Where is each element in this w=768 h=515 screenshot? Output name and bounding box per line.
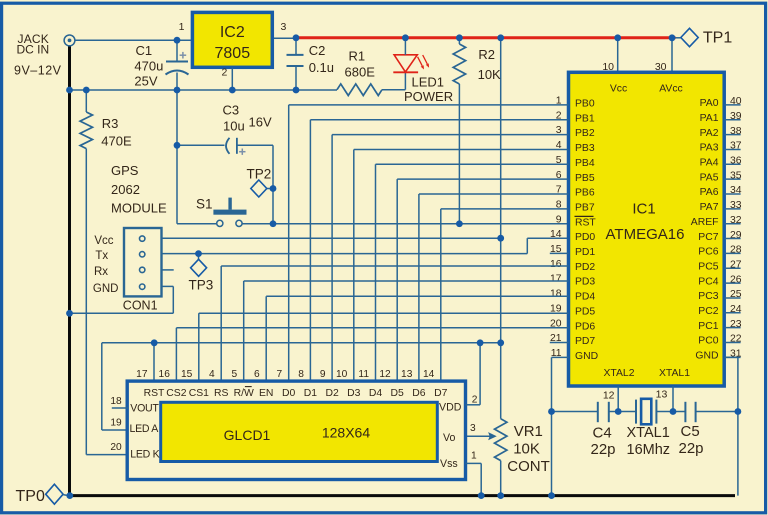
svg-text:13: 13 <box>401 369 413 380</box>
svg-text:R3: R3 <box>102 116 119 131</box>
svg-text:16: 16 <box>159 369 171 380</box>
svg-text:PD5: PD5 <box>575 306 595 317</box>
svg-text:17: 17 <box>136 369 148 380</box>
svg-text:16: 16 <box>550 259 562 270</box>
svg-text:PA0: PA0 <box>700 98 719 109</box>
svg-text:22p: 22p <box>679 440 704 457</box>
svg-text:14: 14 <box>550 229 562 240</box>
svg-text:RS: RS <box>214 388 229 399</box>
svg-text:PB5: PB5 <box>575 173 595 184</box>
svg-text:19: 19 <box>110 418 122 429</box>
svg-text:18: 18 <box>550 289 562 300</box>
svg-text:9: 9 <box>556 214 562 225</box>
svg-text:9: 9 <box>320 369 326 380</box>
svg-text:PC2: PC2 <box>698 306 718 317</box>
svg-text:PA2: PA2 <box>700 128 719 139</box>
svg-text:R2: R2 <box>478 47 495 62</box>
svg-text:Vcc: Vcc <box>94 235 113 247</box>
svg-text:D2: D2 <box>325 388 339 399</box>
svg-text:470u: 470u <box>134 59 163 74</box>
svg-text:16V: 16V <box>249 115 272 130</box>
svg-text:1: 1 <box>179 21 185 33</box>
svg-text:D4: D4 <box>369 388 383 399</box>
svg-text:GND: GND <box>695 351 718 362</box>
svg-text:PD4: PD4 <box>575 292 595 303</box>
svg-text:22p: 22p <box>591 441 616 458</box>
svg-text:10K: 10K <box>478 67 501 82</box>
svg-text:11: 11 <box>358 369 369 380</box>
svg-text:R/W: R/W <box>234 388 254 399</box>
svg-text:EN: EN <box>259 388 273 399</box>
svg-text:PC3: PC3 <box>698 291 718 302</box>
svg-text:2062: 2062 <box>111 182 140 197</box>
svg-text:CONT: CONT <box>507 458 550 475</box>
svg-text:TP2: TP2 <box>247 167 272 182</box>
svg-text:D7: D7 <box>434 388 448 399</box>
svg-text:20: 20 <box>110 442 122 453</box>
svg-text:Vcc: Vcc <box>610 83 627 94</box>
svg-text:LED1: LED1 <box>412 75 445 90</box>
svg-text:12: 12 <box>379 369 391 380</box>
svg-text:C5: C5 <box>681 423 700 440</box>
svg-text:PB1: PB1 <box>575 113 595 124</box>
svg-text:Rx: Rx <box>94 266 108 278</box>
svg-text:TP0: TP0 <box>16 488 45 505</box>
svg-text:PD2: PD2 <box>575 262 595 273</box>
svg-text:128X64: 128X64 <box>322 425 370 441</box>
svg-text:15: 15 <box>181 369 193 380</box>
svg-text:VR1: VR1 <box>514 423 543 440</box>
svg-text:PA1: PA1 <box>700 113 719 124</box>
svg-text:10K: 10K <box>513 441 540 458</box>
svg-text:GPS: GPS <box>111 163 139 178</box>
svg-text:14: 14 <box>423 369 435 380</box>
svg-text:D3: D3 <box>347 388 361 399</box>
svg-text:S1: S1 <box>196 196 213 211</box>
svg-text:470E: 470E <box>101 133 132 148</box>
svg-text:D1: D1 <box>304 388 318 399</box>
svg-text:CS2: CS2 <box>166 388 186 399</box>
svg-text:PD3: PD3 <box>575 277 595 288</box>
svg-text:0.1u: 0.1u <box>309 60 334 75</box>
svg-text:PC6: PC6 <box>698 247 718 258</box>
svg-text:1: 1 <box>471 451 477 462</box>
svg-text:D0: D0 <box>282 388 296 399</box>
svg-text:ATMEGA16: ATMEGA16 <box>606 226 685 243</box>
svg-text:TP3: TP3 <box>189 278 214 293</box>
svg-text:5: 5 <box>232 369 238 380</box>
svg-text:AREF: AREF <box>691 217 719 228</box>
svg-text:17: 17 <box>550 274 562 285</box>
svg-text:8: 8 <box>298 369 304 380</box>
svg-text:PC0: PC0 <box>698 336 718 347</box>
svg-text:IC1: IC1 <box>632 201 655 218</box>
svg-text:Tx: Tx <box>95 250 108 262</box>
svg-text:RST: RST <box>144 388 165 399</box>
svg-text:Vo: Vo <box>443 432 455 444</box>
svg-text:7: 7 <box>277 369 283 380</box>
svg-text:PD7: PD7 <box>575 336 595 347</box>
svg-text:PD0: PD0 <box>575 232 595 243</box>
svg-text:PA4: PA4 <box>700 158 719 169</box>
svg-text:PB2: PB2 <box>575 128 595 139</box>
svg-text:13: 13 <box>656 389 668 401</box>
svg-text:PA7: PA7 <box>700 202 719 213</box>
svg-text:DC IN: DC IN <box>17 43 50 57</box>
svg-text:D6: D6 <box>412 388 426 399</box>
svg-text:POWER: POWER <box>404 89 453 104</box>
svg-text:IC2: IC2 <box>220 24 245 41</box>
svg-text:LED A: LED A <box>130 423 160 435</box>
svg-text:LED K: LED K <box>130 449 159 461</box>
svg-text:18: 18 <box>110 396 122 407</box>
svg-text:2: 2 <box>221 67 227 79</box>
svg-text:PD1: PD1 <box>575 247 595 258</box>
svg-text:TP1: TP1 <box>703 29 732 46</box>
svg-text:D5: D5 <box>391 388 405 399</box>
svg-text:6: 6 <box>254 369 260 380</box>
svg-text:PA3: PA3 <box>700 143 719 154</box>
svg-text:VOUT: VOUT <box>130 403 159 415</box>
svg-text:VDD: VDD <box>439 402 462 414</box>
svg-text:PA5: PA5 <box>700 172 719 183</box>
svg-text:PC5: PC5 <box>698 261 718 272</box>
svg-text:RST: RST <box>575 217 596 228</box>
svg-text:PB3: PB3 <box>575 143 595 154</box>
svg-text:CS1: CS1 <box>189 388 209 399</box>
svg-text:MODULE: MODULE <box>111 201 167 216</box>
svg-text:PB7: PB7 <box>575 202 595 213</box>
svg-text:GLCD1: GLCD1 <box>224 427 271 443</box>
svg-text:30: 30 <box>655 61 667 73</box>
svg-text:XTAL1: XTAL1 <box>627 425 670 441</box>
svg-text:PB4: PB4 <box>575 158 595 169</box>
svg-text:GND: GND <box>575 351 598 362</box>
svg-text:2: 2 <box>472 395 478 406</box>
svg-text:CON1: CON1 <box>123 299 158 313</box>
svg-text:PC1: PC1 <box>698 321 718 332</box>
svg-text:PB6: PB6 <box>575 188 595 199</box>
svg-text:10u: 10u <box>223 119 245 134</box>
svg-text:XTAL2: XTAL2 <box>604 368 635 379</box>
svg-text:PD6: PD6 <box>575 321 595 332</box>
svg-text:7805: 7805 <box>215 45 251 62</box>
svg-text:12: 12 <box>603 390 615 402</box>
svg-text:PC7: PC7 <box>698 232 718 243</box>
svg-text:16Mhz: 16Mhz <box>627 442 671 458</box>
svg-text:3: 3 <box>470 423 476 434</box>
svg-text:AVcc: AVcc <box>659 83 682 94</box>
svg-text:25V: 25V <box>134 74 157 89</box>
svg-text:PB0: PB0 <box>575 99 595 110</box>
svg-text:10: 10 <box>602 61 614 73</box>
svg-text:4: 4 <box>209 369 215 380</box>
svg-text:R1: R1 <box>349 49 366 64</box>
svg-text:GND: GND <box>93 283 119 295</box>
svg-text:680E: 680E <box>345 65 376 80</box>
svg-text:Vss: Vss <box>440 458 458 470</box>
svg-text:9V–12V: 9V–12V <box>14 64 62 78</box>
svg-text:C3: C3 <box>223 103 240 118</box>
svg-text:C1: C1 <box>136 43 153 58</box>
svg-text:C4: C4 <box>593 424 612 441</box>
svg-text:C2: C2 <box>309 43 326 58</box>
svg-text:XTAL1: XTAL1 <box>659 368 690 379</box>
svg-text:PA6: PA6 <box>700 187 719 198</box>
svg-text:3: 3 <box>281 21 287 33</box>
svg-text:10: 10 <box>336 369 348 380</box>
svg-text:PC4: PC4 <box>698 276 718 287</box>
